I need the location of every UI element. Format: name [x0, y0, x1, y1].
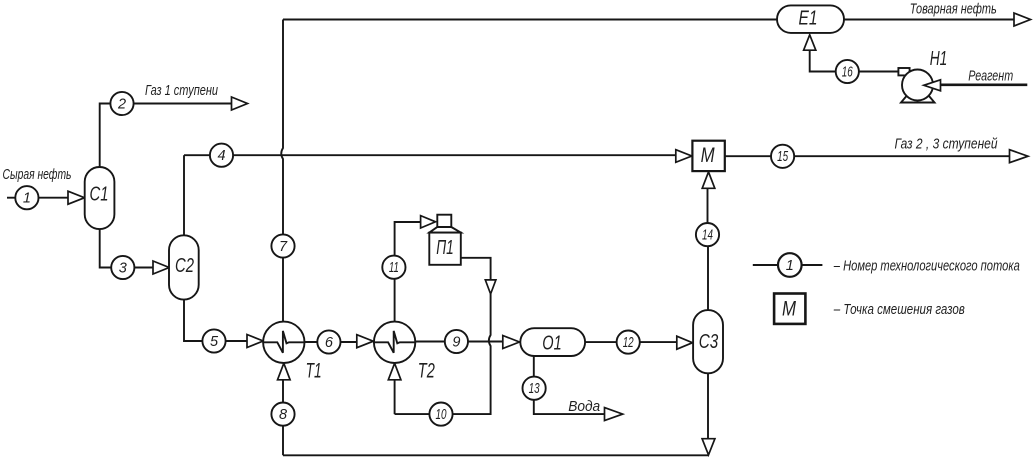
stream circle 13	[523, 377, 546, 400]
svg-text:5: 5	[210, 334, 219, 350]
arrow into pump H1 suction	[924, 80, 941, 91]
wire C1 top to gas line 2	[100, 104, 111, 168]
svg-text:10: 10	[436, 407, 447, 423]
wire stream 3 to C2	[134, 267, 153, 269]
wire T2 to stream 9 to O1	[415, 341, 503, 343]
pump H1 support	[901, 96, 935, 103]
wire bottom return line	[283, 454, 708, 456]
wire C2 bottom to stream 5	[184, 300, 202, 341]
wire stream 2 to arrow	[133, 103, 232, 105]
svg-text:Сырая нефть: Сырая нефть	[3, 166, 72, 183]
svg-text:3: 3	[119, 260, 127, 276]
svg-text:Е1: Е1	[799, 8, 818, 30]
wire stream 1 inlet stub	[7, 197, 16, 199]
svg-text:М: М	[701, 144, 715, 167]
arrow into C1	[68, 191, 85, 204]
svg-text:Т1: Т1	[306, 359, 322, 382]
wire bottom loop stream 10 to T2 bottom	[395, 380, 453, 415]
svg-text:16: 16	[842, 64, 854, 80]
heat exchanger T1	[263, 322, 304, 363]
stream circle 12	[617, 331, 640, 354]
arrow into T1 bottom	[278, 363, 291, 380]
svg-text:М: М	[782, 298, 796, 321]
svg-text:П1: П1	[436, 237, 454, 259]
svg-text:7: 7	[279, 239, 288, 255]
svg-text:Вода: Вода	[568, 398, 600, 415]
arrow into O1	[503, 336, 520, 349]
stream circle 16	[836, 60, 859, 83]
svg-text:12: 12	[623, 335, 634, 351]
svg-text:9: 9	[452, 334, 460, 350]
arrow water outlet	[605, 408, 623, 421]
arrow product oil outlet	[1014, 13, 1031, 26]
wire T2 top riser to furnace P1	[395, 222, 421, 322]
arrow into T2 bottom	[388, 363, 401, 380]
stream circle 2	[110, 92, 133, 115]
svg-text:1: 1	[786, 258, 794, 274]
stream circle 8	[271, 403, 294, 426]
arrow into M bottom	[702, 172, 715, 188]
wire C3 bottom to bottom line	[707, 373, 709, 438]
wire stream 5 to T1	[226, 340, 248, 342]
svg-text:13: 13	[529, 381, 540, 397]
legend mixing point box	[774, 294, 805, 324]
legend stream number line	[753, 264, 823, 266]
wire riser x283 from top line down to T1 with jog at crossing	[281, 20, 283, 322]
wire T1 to stream 6 to T2	[305, 341, 358, 343]
stream circle 15	[771, 145, 794, 168]
arrow gas stage 2-3 outlet	[1010, 150, 1029, 163]
vessel C3	[693, 310, 723, 373]
svg-text:Газ 2 , 3 ступеней: Газ 2 , 3 ступеней	[895, 136, 999, 153]
wire O1 bottom to stream 13 water	[534, 356, 605, 414]
heat exchanger T2	[374, 322, 415, 363]
stream circle 14	[696, 223, 719, 246]
pump H1 discharge port	[898, 68, 909, 75]
wire E1 feed riser from stream 16	[810, 50, 837, 72]
arrow into T2 left	[357, 335, 374, 348]
furnace P1 chimney	[437, 215, 451, 227]
stream circle 3	[111, 256, 134, 279]
vessel C1	[85, 167, 115, 229]
svg-text:– Номер технологического поток: – Номер технологического потока	[833, 258, 1020, 275]
svg-text:Реагент: Реагент	[968, 67, 1013, 84]
stream circle 11	[382, 256, 405, 279]
arrow into T1 left	[247, 335, 263, 348]
wire reagent inlet thick line	[941, 84, 1028, 87]
legend stream number circle	[778, 253, 802, 277]
stream circle 9	[445, 330, 468, 353]
wire top line left (node 7 riser to E1)	[283, 19, 777, 21]
arrow into E1 bottom	[804, 35, 816, 50]
stream circle 4	[210, 144, 233, 167]
svg-text:Т2: Т2	[418, 359, 435, 382]
svg-text:Товарная нефть: Товарная нефть	[910, 1, 997, 18]
stream circle 10	[429, 403, 452, 426]
stream circle 6	[317, 330, 340, 353]
svg-text:15: 15	[777, 149, 789, 165]
wire stream 4 line to mixing point M	[184, 154, 676, 156]
furnace P1 roof	[429, 227, 461, 233]
wire O1 to stream 12 to C3	[585, 341, 677, 343]
svg-text:4: 4	[217, 148, 225, 164]
svg-text:2: 2	[117, 96, 126, 112]
stream circle 5	[202, 329, 225, 352]
svg-text:14: 14	[702, 227, 713, 243]
svg-text:О1: О1	[542, 333, 561, 355]
tank E1	[777, 5, 844, 33]
separator O1	[520, 328, 585, 356]
stream circle 1	[15, 186, 38, 209]
svg-text:6: 6	[325, 335, 334, 351]
svg-text:Н1: Н1	[930, 48, 948, 70]
svg-text:8: 8	[279, 407, 287, 423]
wire M to stream 15 gas outlet	[725, 155, 1010, 157]
stream circle 7	[271, 234, 294, 257]
wire P1 outlet down with jog crossing stream 9 line	[429, 258, 490, 414]
arrow down on P1 outlet	[485, 280, 496, 294]
arrow into C3	[677, 336, 693, 349]
furnace P1 body	[429, 233, 461, 265]
wire T1 bottom riser stream 8 to bottom line	[282, 380, 284, 456]
pump H1 body	[902, 70, 933, 101]
vessel C2	[169, 235, 199, 299]
wire C1 bottom to stream 3	[100, 229, 112, 268]
wire stream 1 to C1	[38, 197, 68, 199]
svg-text:С2: С2	[175, 255, 194, 277]
arrow gas stage 1 outlet	[232, 97, 248, 110]
wire C3 top riser stream 14 to M	[707, 188, 710, 310]
arrow C3 bottom onto return line	[702, 439, 715, 455]
mixing point M box	[692, 141, 724, 171]
svg-text:– Точка смешения газов: – Точка смешения газов	[833, 301, 965, 318]
svg-text:Газ 1 ступени: Газ 1 ступени	[145, 82, 218, 99]
svg-text:11: 11	[389, 260, 399, 276]
svg-text:С1: С1	[90, 184, 109, 206]
svg-text:С3: С3	[699, 331, 719, 353]
svg-text:1: 1	[23, 191, 31, 207]
arrow into M left	[676, 150, 692, 163]
wire E1 to product arrow	[844, 19, 1015, 21]
arrow into C2	[153, 261, 169, 274]
wire C2 top riser to stream 4 line	[183, 155, 185, 235]
arrow into P1 chimney	[421, 216, 436, 228]
wire stream 16 to pump H1	[858, 71, 898, 73]
